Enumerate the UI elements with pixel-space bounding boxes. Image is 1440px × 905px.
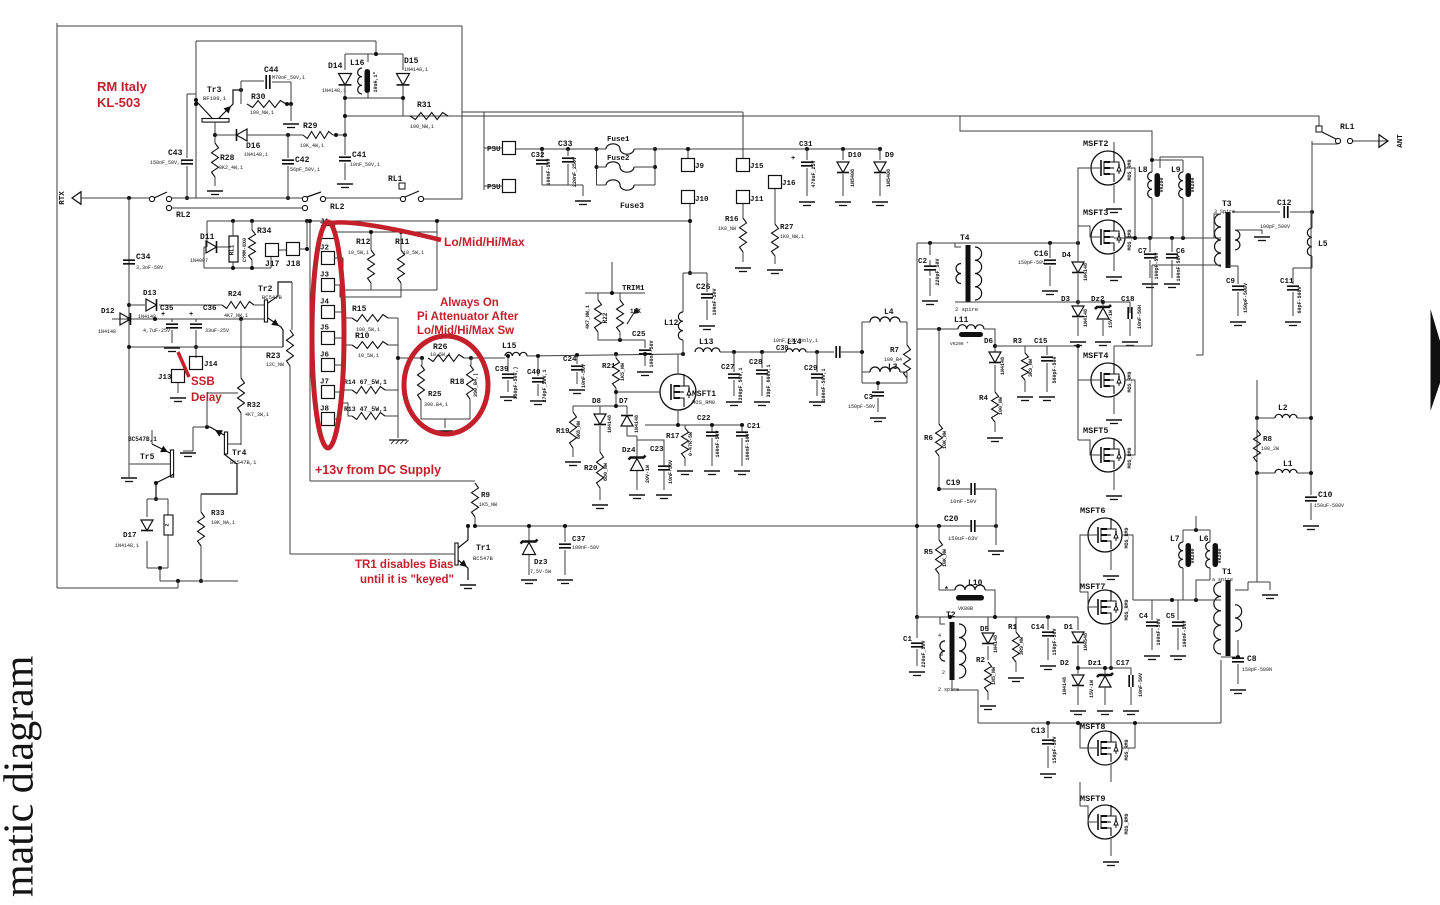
svg-text:100_NW,1: 100_NW,1: [410, 124, 434, 130]
svg-text:C27: C27: [721, 364, 735, 372]
svg-text:J4: J4: [320, 299, 330, 307]
svg-text:1N4148: 1N4148: [98, 329, 116, 335]
svg-text:C1: C1: [903, 636, 913, 644]
svg-text:MOS_RM9: MOS_RM9: [1127, 229, 1133, 250]
svg-text:Fuse3: Fuse3: [620, 202, 644, 211]
svg-text:RL2: RL2: [176, 211, 191, 220]
svg-text:470uF_25V: 470uF_25V: [811, 160, 817, 187]
svg-text:C24: C24: [563, 356, 577, 364]
svg-text:R13 47_5W,1: R13 47_5W,1: [344, 406, 387, 413]
svg-text:1K0_NW,1: 1K0_NW,1: [780, 234, 804, 240]
svg-text:+: +: [189, 311, 193, 319]
svg-text:100nF-50V: 100nF-50V: [649, 340, 655, 367]
svg-text:R30: R30: [251, 93, 266, 102]
svg-text:L7: L7: [1170, 535, 1180, 544]
svg-text:2 spire: 2 spire: [955, 306, 978, 313]
svg-text:J10: J10: [695, 196, 709, 204]
svg-text:150pF-50V: 150pF-50V: [848, 404, 875, 410]
svg-text:150oF_50V,1: 150oF_50V,1: [150, 160, 183, 166]
svg-text:Fuse2: Fuse2: [607, 155, 630, 163]
svg-text:L11: L11: [954, 316, 969, 325]
svg-text:3R9_NW: 3R9_NW: [1019, 637, 1025, 655]
svg-text:C8: C8: [1247, 655, 1257, 664]
svg-text:J2: J2: [320, 245, 330, 253]
svg-text:R8: R8: [1263, 436, 1273, 444]
svg-text:1K0_NW: 1K0_NW: [718, 226, 736, 232]
svg-text:D1: D1: [1064, 624, 1074, 632]
svg-text:MSFT9: MSFT9: [1080, 794, 1106, 804]
svg-text:PSU: PSU: [487, 146, 501, 154]
svg-text:VK200: VK200: [1190, 177, 1196, 192]
svg-text:1N4148: 1N4148: [1000, 357, 1006, 375]
svg-text:1N5408: 1N5408: [850, 169, 856, 187]
svg-text:6K8_NW: 6K8_NW: [576, 421, 582, 439]
svg-text:1N4148,1: 1N4148,1: [322, 88, 346, 94]
svg-text:L13: L13: [699, 338, 714, 347]
svg-text:1N4148: 1N4148: [607, 415, 613, 433]
svg-text:1N5_NW: 1N5_NW: [991, 667, 997, 685]
svg-text:C18: C18: [1121, 296, 1135, 304]
svg-text:C22: C22: [697, 415, 711, 423]
svg-text:VK200: VK200: [1217, 548, 1223, 563]
svg-text:10K_4W,1: 10K_4W,1: [300, 143, 324, 149]
svg-text:D4: D4: [1062, 252, 1072, 260]
svg-text:C15: C15: [1034, 338, 1048, 346]
svg-text:R31: R31: [417, 101, 432, 110]
svg-text:T1: T1: [1222, 568, 1232, 577]
svg-text:R5: R5: [924, 549, 934, 557]
svg-text:C13: C13: [1031, 727, 1046, 736]
svg-text:VK200: VK200: [1159, 177, 1165, 192]
svg-text:270pF_50V,1: 270pF_50V,1: [542, 369, 548, 402]
svg-text:10nF-50V: 10nF-50V: [668, 460, 674, 484]
svg-text:C17: C17: [1116, 660, 1130, 668]
svg-text:C3: C3: [864, 394, 874, 402]
svg-text:C36: C36: [203, 305, 217, 313]
svg-text:R15: R15: [352, 305, 367, 314]
svg-text:100pF_500V: 100pF_500V: [1260, 224, 1290, 230]
svg-text:4,7uF-25V: 4,7uF-25V: [143, 328, 170, 334]
svg-text:L10: L10: [968, 579, 983, 588]
svg-text:10K_NW: 10K_NW: [942, 431, 948, 449]
svg-text:L15: L15: [502, 342, 517, 351]
svg-text:10K_NA,1: 10K_NA,1: [211, 520, 235, 526]
svg-text:100nF-50V: 100nF-50V: [1156, 618, 1162, 645]
svg-text:Lo/Mid/Hi/Max Sw: Lo/Mid/Hi/Max Sw: [417, 325, 514, 337]
svg-text:390_B4,): 390_B4,): [473, 373, 479, 397]
svg-text:MOS_RM9: MOS_RM9: [1124, 599, 1130, 620]
svg-text:150pF-50V,): 150pF-50V,): [513, 366, 519, 399]
svg-text:L1: L1: [1283, 460, 1293, 469]
svg-text:Pi Attenuator After: Pi Attenuator After: [417, 311, 519, 323]
svg-text:1N4148: 1N4148: [1083, 309, 1089, 327]
svg-text:C31: C31: [799, 141, 813, 149]
svg-text:TR1 disables Bias: TR1 disables Bias: [355, 559, 453, 571]
svg-text:7,5V-5W: 7,5V-5W: [530, 569, 551, 575]
svg-text:3: 3: [940, 652, 943, 658]
svg-text:J9: J9: [695, 163, 705, 171]
svg-text:100pF-50V: 100pF-50V: [1154, 252, 1160, 279]
svg-text:J13: J13: [158, 374, 172, 382]
svg-text:C32: C32: [531, 152, 545, 160]
svg-text:1N4148,1: 1N4148,1: [115, 543, 139, 549]
svg-text:MSFT6: MSFT6: [1080, 506, 1106, 516]
svg-text:C25: C25: [632, 331, 646, 339]
svg-text:J11: J11: [750, 196, 764, 204]
svg-text:1N4148: 1N4148: [1062, 677, 1068, 695]
svg-text:MSFT3: MSFT3: [1083, 208, 1109, 218]
svg-text:100nF-50V: 100nF-50V: [712, 288, 718, 315]
svg-text:1N4148: 1N4148: [634, 415, 640, 433]
svg-text:BC547B: BC547B: [473, 555, 494, 562]
svg-text:L5: L5: [1318, 240, 1328, 249]
svg-text:C5: C5: [1166, 613, 1176, 621]
svg-text:C14: C14: [1031, 624, 1045, 632]
svg-text:C34: C34: [136, 253, 151, 262]
svg-text:L12: L12: [664, 319, 679, 328]
svg-text:T3: T3: [1222, 200, 1232, 209]
svg-text:10nF-50V: 10nF-50V: [1138, 673, 1144, 697]
svg-text:150pF-500N: 150pF-500N: [1242, 667, 1272, 673]
svg-text:C26: C26: [696, 283, 711, 292]
svg-text:220uF_50V: 220uF_50V: [921, 640, 927, 667]
svg-text:C33: C33: [558, 140, 573, 149]
svg-text:100_NW,1: 100_NW,1: [250, 110, 274, 116]
svg-text:R23: R23: [266, 352, 281, 361]
svg-text:R2: R2: [976, 657, 986, 665]
svg-text:D16: D16: [246, 142, 261, 151]
svg-text:33uF-25V: 33uF-25V: [205, 328, 229, 334]
svg-text:J14: J14: [204, 361, 218, 369]
svg-text:T4: T4: [960, 234, 970, 243]
svg-text:560pF-50H: 560pF-50H: [1052, 356, 1058, 383]
svg-text:*: *: [944, 586, 949, 595]
svg-text:R22: R22: [602, 312, 609, 323]
svg-text:150pF-50V: 150pF-50V: [1018, 260, 1045, 266]
svg-text:Tr3: Tr3: [207, 86, 222, 95]
svg-text:C16: C16: [1034, 250, 1049, 259]
svg-text:15V-1W: 15V-1W: [1089, 680, 1095, 698]
svg-text:12C_NW: 12C_NW: [266, 362, 284, 368]
svg-text:BC547B,1: BC547B,1: [128, 436, 157, 443]
svg-text:C29: C29: [804, 365, 818, 373]
svg-text:BC547B,1: BC547B,1: [230, 459, 257, 466]
svg-text:1N4148: 1N4148: [1083, 263, 1089, 281]
svg-text:1N4148,1: 1N4148,1: [404, 67, 428, 73]
svg-text:C21: C21: [747, 423, 761, 431]
svg-text:100nF-50V: 100nF-50V: [715, 430, 721, 457]
svg-text:Dz1: Dz1: [1088, 660, 1102, 668]
svg-text:R9: R9: [481, 492, 491, 500]
svg-text:390pF_50V,1: 390pF_50V,1: [738, 367, 744, 400]
svg-text:2: 2: [165, 523, 171, 526]
svg-text:220nF_250V: 220nF_250V: [572, 157, 578, 187]
svg-text:10_5W,1: 10_5W,1: [430, 352, 451, 358]
svg-text:C?MM-8X0: C?MM-8X0: [242, 238, 248, 262]
svg-text:1K5_NW: 1K5_NW: [620, 363, 626, 381]
svg-text:VK80B: VK80B: [958, 606, 973, 612]
svg-text:matic diagram: matic diagram: [0, 655, 43, 897]
svg-text:R17: R17: [666, 433, 680, 441]
svg-text:C43: C43: [168, 149, 183, 158]
svg-text:4K7_NW,1: 4K7_NW,1: [224, 313, 248, 319]
svg-text:D6: D6: [984, 338, 994, 346]
svg-text:RL1: RL1: [229, 244, 236, 255]
svg-text:RM Italy: RM Italy: [97, 79, 148, 94]
svg-text:R25: R25: [428, 391, 442, 399]
svg-text:R20: R20: [584, 465, 598, 473]
svg-text:L6: L6: [1199, 535, 1209, 544]
svg-text:D8: D8: [592, 398, 602, 406]
svg-text:1N4148: 1N4148: [993, 635, 999, 653]
svg-text:R18: R18: [450, 378, 465, 387]
svg-text:R19: R19: [556, 428, 570, 436]
svg-text:10uH,1*: 10uH,1*: [373, 71, 379, 92]
svg-text:R1: R1: [1008, 624, 1018, 632]
svg-text:R12: R12: [356, 238, 371, 247]
svg-text:D7: D7: [619, 398, 628, 406]
svg-text:Tr1: Tr1: [476, 544, 491, 553]
svg-text:680_NW: 680_NW: [603, 463, 609, 481]
svg-text:MOS_RM9: MOS_RM9: [1124, 527, 1130, 548]
svg-text:MSFT5: MSFT5: [1083, 426, 1109, 436]
svg-text:R16: R16: [725, 216, 739, 224]
svg-text:8K2_4W,1: 8K2_4W,1: [219, 165, 243, 171]
svg-text:SSB: SSB: [191, 376, 215, 388]
svg-text:0-47R-5W: 0-47R-5W: [688, 432, 694, 456]
svg-text:C7: C7: [1138, 248, 1147, 256]
svg-text:D10: D10: [848, 152, 862, 160]
svg-text:1N4148,1: 1N4148,1: [244, 152, 268, 158]
svg-text:C11: C11: [1280, 278, 1294, 286]
svg-text:MSFT1: MSFT1: [692, 390, 716, 399]
svg-text:100nF-50P: 100nF-50P: [1176, 254, 1182, 281]
svg-text:C10: C10: [1318, 491, 1333, 500]
svg-text:TRIM1: TRIM1: [622, 285, 645, 293]
svg-text:3K9_NW: 3K9_NW: [1028, 359, 1034, 377]
svg-text:100nF-50V: 100nF-50V: [745, 433, 751, 460]
svg-text:10K_NW: 10K_NW: [942, 549, 948, 567]
svg-text:D9: D9: [885, 152, 895, 160]
svg-text:RL1: RL1: [1340, 123, 1355, 132]
svg-text:Dz4: Dz4: [622, 447, 636, 455]
svg-text:L2: L2: [1278, 404, 1288, 413]
svg-text:M70oF_50V,1: M70oF_50V,1: [272, 75, 305, 81]
svg-text:R7: R7: [890, 347, 899, 355]
svg-text:C9: C9: [1226, 278, 1236, 286]
svg-text:C41: C41: [352, 151, 367, 160]
svg-text:MSFT7: MSFT7: [1080, 582, 1106, 592]
svg-text:4: 4: [938, 633, 941, 639]
svg-text:R27: R27: [780, 224, 794, 232]
svg-text:C4: C4: [1139, 613, 1149, 621]
svg-text:J8: J8: [320, 406, 330, 414]
svg-text:C28: C28: [749, 359, 763, 367]
svg-text:100nF-50V: 100nF-50V: [572, 545, 599, 551]
svg-text:150uF-500V: 150uF-500V: [1314, 503, 1344, 509]
svg-text:1K5_NW: 1K5_NW: [479, 502, 497, 508]
svg-text:1N5408: 1N5408: [886, 169, 892, 187]
svg-text:D2: D2: [1060, 660, 1070, 668]
svg-text:RL2: RL2: [330, 203, 345, 212]
svg-text:C12: C12: [1277, 199, 1292, 208]
svg-text:VK200 *: VK200 *: [950, 341, 969, 347]
svg-text:J16: J16: [782, 180, 796, 188]
svg-text:+: +: [791, 155, 795, 163]
svg-text:C35: C35: [160, 305, 174, 313]
svg-text:PSU: PSU: [487, 184, 501, 192]
svg-text:until it is "keyed": until it is "keyed": [360, 574, 454, 586]
svg-text:J7: J7: [320, 379, 329, 387]
svg-text:10_5W,1: 10_5W,1: [358, 353, 379, 359]
svg-text:C44: C44: [264, 66, 279, 75]
svg-text:J18: J18: [286, 260, 301, 269]
svg-text:R4: R4: [979, 395, 989, 403]
svg-text:D12: D12: [101, 308, 115, 316]
svg-text:39pF_600V,1: 39pF_600V,1: [766, 364, 772, 397]
svg-text:ANT: ANT: [1397, 134, 1405, 148]
svg-text:Always On: Always On: [440, 297, 499, 309]
svg-text:C19: C19: [946, 479, 961, 488]
svg-text:VK200: VK200: [1190, 548, 1196, 563]
svg-text:D17: D17: [123, 532, 137, 540]
svg-text:100nF-50V,1: 100nF-50V,1: [821, 368, 827, 401]
svg-text:150pF-50V: 150pF-50V: [1052, 736, 1058, 763]
svg-text:a spire: a spire: [1212, 577, 1233, 583]
svg-text:R26: R26: [433, 343, 448, 352]
svg-text:C2: C2: [918, 258, 928, 266]
svg-text:R32: R32: [247, 402, 261, 410]
svg-text:R21: R21: [602, 363, 616, 371]
svg-text:60pF-500V: 60pF-500V: [1297, 286, 1303, 313]
svg-text:4K7_NW,1: 4K7_NW,1: [585, 305, 591, 329]
svg-text:4K7_3W,1: 4K7_3W,1: [245, 412, 269, 418]
svg-text:Tr2: Tr2: [258, 285, 273, 294]
svg-text:10nF_63V_poly,1: 10nF_63V_poly,1: [773, 338, 818, 344]
svg-text:10_5W,1: 10_5W,1: [403, 250, 424, 256]
svg-text:MOS_RM9: MOS_RM9: [1124, 813, 1130, 834]
svg-text:D5: D5: [980, 626, 990, 634]
svg-text:10nF-50V: 10nF-50V: [950, 498, 977, 505]
svg-text:D15: D15: [404, 57, 419, 66]
svg-text:220pF_50V: 220pF_50V: [935, 258, 941, 285]
svg-text:C39: C39: [495, 366, 509, 374]
svg-text:MSFT4: MSFT4: [1083, 351, 1109, 361]
svg-text:3,3oF-50V: 3,3oF-50V: [136, 265, 163, 271]
svg-text:Tr5: Tr5: [140, 453, 155, 462]
svg-text:D14: D14: [328, 62, 343, 71]
svg-text:BF199,1: BF199,1: [203, 95, 227, 102]
svg-text:MOS_RM0: MOS_RM0: [692, 399, 715, 406]
svg-text:RL1: RL1: [388, 175, 403, 184]
svg-text:1N4007: 1N4007: [190, 258, 208, 264]
svg-text:20V-1W: 20V-1W: [645, 465, 651, 483]
svg-text:+13v from DC Supply: +13v from DC Supply: [315, 463, 441, 477]
svg-text:J6: J6: [320, 352, 330, 360]
svg-text:R34: R34: [257, 227, 272, 236]
svg-text:MSFT2: MSFT2: [1083, 139, 1109, 149]
svg-text:Dz3: Dz3: [534, 559, 548, 567]
svg-text:R11: R11: [395, 238, 410, 247]
svg-text:L16: L16: [350, 59, 365, 68]
svg-text:56pF_50V,1: 56pF_50V,1: [290, 167, 320, 173]
svg-text:Fuse1: Fuse1: [607, 136, 630, 144]
svg-text:C42: C42: [295, 156, 310, 165]
svg-text:MOS_RM9: MOS_RM9: [1127, 371, 1133, 392]
svg-text:1N4548: 1N4548: [1083, 633, 1089, 651]
svg-text:C23: C23: [650, 446, 664, 454]
svg-text:L9: L9: [1171, 166, 1181, 175]
svg-text:10nF-50H: 10nF-50H: [1137, 305, 1143, 329]
svg-text:100nF-50V: 100nF-50V: [1182, 620, 1188, 647]
svg-text:MOS_RM9: MOS_RM9: [1127, 159, 1133, 180]
svg-text:2: 2: [942, 670, 945, 676]
svg-text:150pF-500V: 150pF-500V: [1243, 283, 1249, 313]
svg-text:R14 67_5W,1: R14 67_5W,1: [344, 379, 387, 386]
svg-text:L8: L8: [1138, 166, 1148, 175]
svg-text:10nF-50V: 10nF-50V: [581, 364, 587, 388]
svg-text:J15: J15: [750, 163, 764, 171]
svg-text:R28: R28: [220, 154, 235, 163]
svg-text:R6: R6: [924, 435, 934, 443]
svg-text:MOS_RM9: MOS_RM9: [1124, 739, 1130, 760]
svg-text:R33: R33: [211, 510, 225, 518]
svg-text:15V-1W: 15V-1W: [1108, 310, 1114, 328]
svg-text:R10: R10: [355, 332, 370, 341]
svg-text:150uF-63V: 150uF-63V: [948, 535, 978, 542]
svg-text:D13: D13: [143, 290, 157, 298]
svg-text:Delay: Delay: [191, 392, 222, 404]
svg-text:J3: J3: [320, 272, 330, 280]
svg-text:KL-503: KL-503: [97, 95, 140, 110]
svg-text:J5: J5: [320, 325, 330, 333]
svg-text:R24: R24: [228, 291, 242, 299]
svg-text:RTX: RTX: [59, 191, 67, 205]
svg-text:390.B4,1: 390.B4,1: [424, 402, 448, 408]
svg-text:D3: D3: [1061, 296, 1071, 304]
svg-text:100nF-50V: 100nF-50V: [546, 158, 552, 185]
svg-text:150pF-50V: 150pF-50V: [1052, 628, 1058, 655]
svg-text:C30: C30: [776, 345, 789, 353]
svg-text:C37: C37: [572, 536, 586, 544]
svg-text:D11: D11: [200, 233, 215, 242]
svg-text:Tr4: Tr4: [232, 449, 247, 458]
svg-text:Lo/Mid/Hi/Max: Lo/Mid/Hi/Max: [444, 235, 525, 249]
svg-text:R29: R29: [303, 122, 318, 131]
svg-text:C40: C40: [527, 369, 541, 377]
svg-text:10_5W,1: 10_5W,1: [348, 250, 369, 256]
svg-text:10nF_50V,1: 10nF_50V,1: [350, 162, 380, 168]
svg-text:L4: L4: [884, 308, 894, 317]
svg-text:L3: L3: [888, 363, 898, 372]
svg-text:C20: C20: [944, 515, 959, 524]
svg-text:100_NW: 100_NW: [998, 397, 1004, 415]
svg-text:MOS_RM9: MOS_RM9: [1127, 447, 1133, 468]
svg-text:100_2W: 100_2W: [1261, 446, 1279, 452]
svg-text:R3: R3: [1013, 338, 1023, 346]
